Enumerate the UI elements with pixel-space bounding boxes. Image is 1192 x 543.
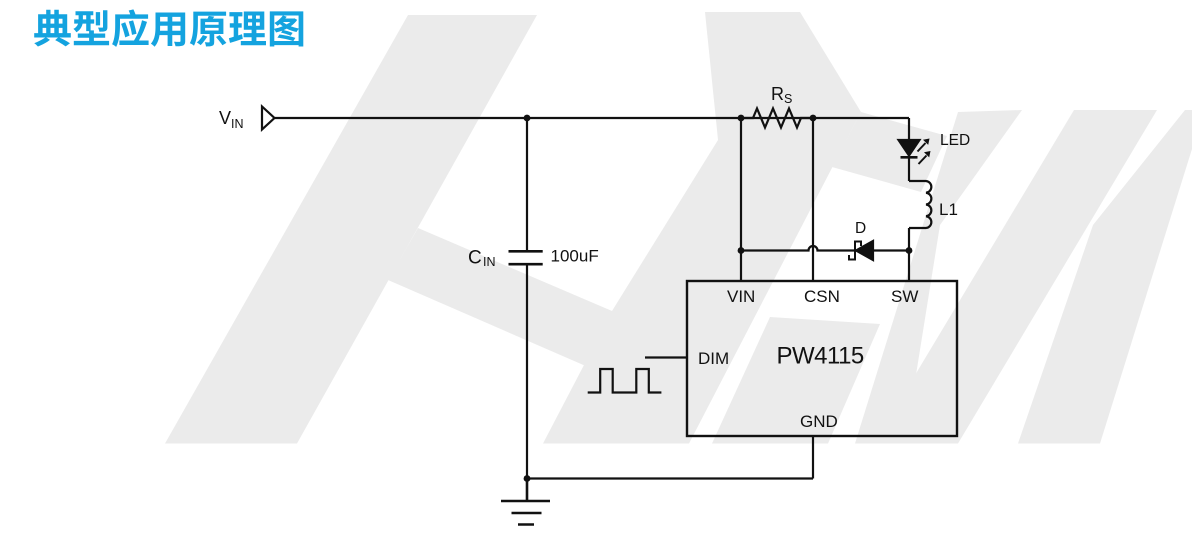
IC pin labels bbox=[698, 287, 918, 431]
junction node resistor left bbox=[738, 115, 745, 122]
diode D schottky bar bbox=[849, 242, 861, 260]
label VIN bbox=[219, 108, 244, 131]
wire: VIN pin vertical bbox=[740, 118, 742, 281]
watermark connector D2 bbox=[832, 112, 947, 192]
wire: CIN bottom bbox=[526, 265, 528, 479]
capacitor CIN plates bbox=[509, 251, 543, 264]
input port triangle VIN bbox=[262, 107, 275, 130]
wire: main VIN rail bbox=[275, 117, 909, 119]
junction node ground bbox=[524, 475, 531, 482]
label CIN bbox=[468, 247, 599, 270]
wire: LED to inductor bbox=[908, 157, 910, 181]
wire: CIN top bbox=[526, 118, 528, 251]
resistor RS body bbox=[741, 109, 813, 128]
watermark connector D1 bbox=[712, 317, 880, 444]
junction node CIN tap bbox=[524, 115, 531, 122]
watermark stroke G bbox=[1018, 110, 1192, 444]
watermark stroke C bbox=[543, 12, 861, 444]
watermark stroke F bbox=[874, 110, 1157, 444]
diode D triangle bbox=[856, 241, 873, 260]
LED cathode bar bbox=[901, 156, 918, 159]
wire: DIM stub bbox=[645, 356, 687, 358]
wire: bottom ground rail bbox=[527, 477, 813, 479]
label RS bbox=[771, 84, 792, 106]
watermark stroke E bbox=[855, 110, 1022, 444]
junction node diode left bbox=[738, 247, 745, 254]
junction node SW bbox=[906, 247, 913, 254]
wire: SW branch down to LED bbox=[908, 118, 910, 139]
watermark stroke A bbox=[165, 15, 537, 444]
IC U1 PW4115 box bbox=[687, 281, 957, 436]
ground symbol bbox=[501, 479, 550, 525]
watermark connector B bbox=[388, 228, 640, 377]
wire: diode rail with hop over CSN bbox=[741, 246, 909, 251]
PWM square wave symbol bbox=[588, 369, 662, 393]
inductor L1 bbox=[909, 181, 931, 228]
junction node resistor right bbox=[810, 115, 817, 122]
LED triangle bbox=[899, 140, 920, 156]
wire: CSN pin vertical bbox=[812, 118, 814, 281]
wire: inductor to SW node bbox=[908, 228, 910, 281]
LED arrows bbox=[918, 139, 931, 165]
wire: GND pin down bbox=[812, 436, 814, 479]
